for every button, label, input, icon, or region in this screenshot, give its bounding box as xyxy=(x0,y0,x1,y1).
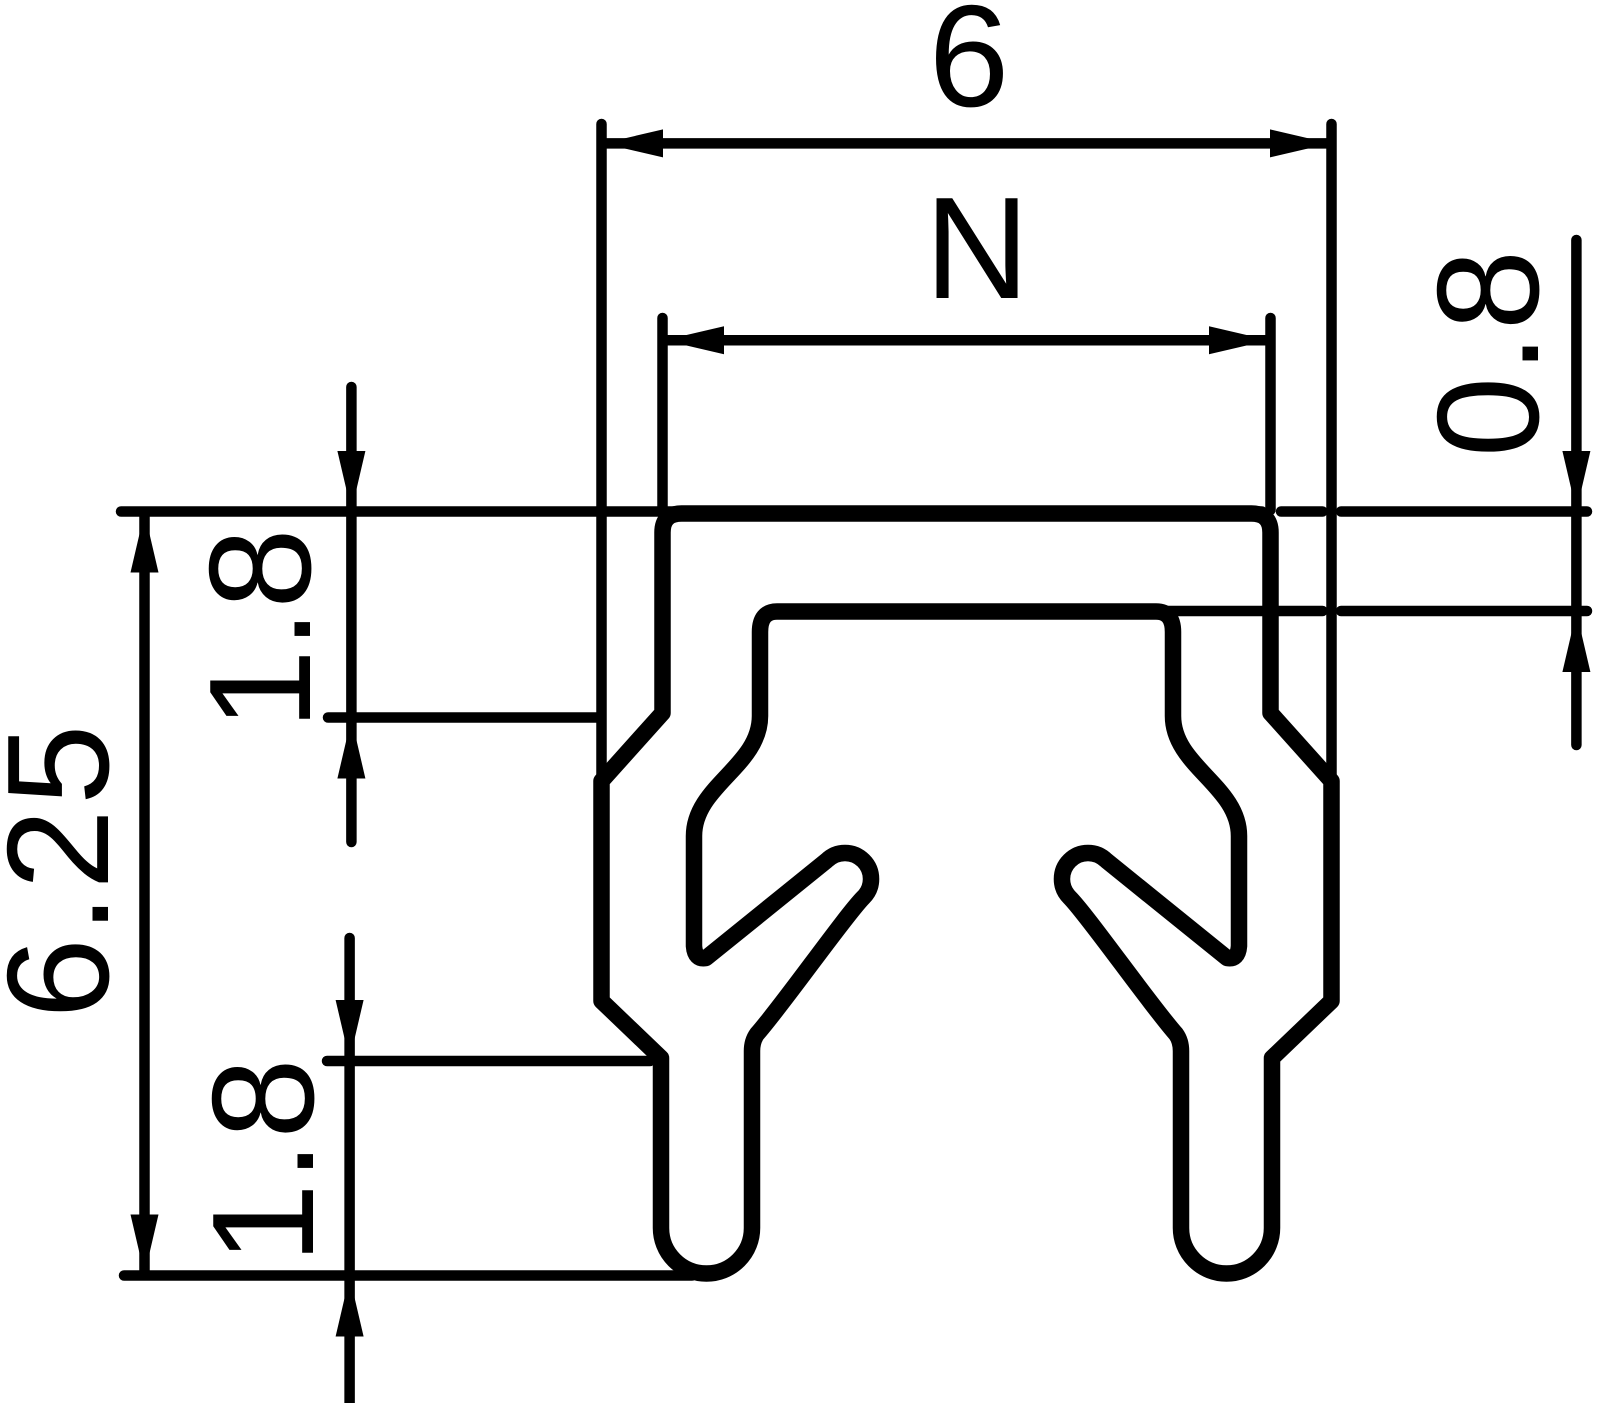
arrowhead 6.25 top xyxy=(131,513,159,573)
wire: dim line 6 xyxy=(603,138,1330,149)
profile cross-section outline xyxy=(602,514,1332,1274)
arrowhead 0.8 top xyxy=(1562,451,1590,511)
svg-text:N: N xyxy=(925,167,1030,329)
arrowhead 0.8 bottom xyxy=(1562,612,1590,672)
svg-text:1.8: 1.8 xyxy=(182,1056,344,1264)
wire: ext line 6 right xyxy=(1326,124,1337,786)
svg-text:1.8: 1.8 xyxy=(179,528,341,730)
arrowhead 1.8 upper bottom xyxy=(337,719,365,779)
arrowhead 1.8 lower top xyxy=(336,1000,364,1060)
arrowhead 1.8 lower bottom xyxy=(336,1277,364,1337)
svg-text:6.25: 6.25 xyxy=(0,720,139,1018)
arrowhead 6.25 bottom xyxy=(131,1215,159,1275)
arrowhead 6 right xyxy=(1270,129,1330,157)
arrowhead 6 left xyxy=(603,129,663,157)
wire: ext line 0.8 lower segment 2 xyxy=(1341,606,1587,617)
wire: ext line 6 left xyxy=(596,124,607,788)
arrowhead 1.8 upper top xyxy=(337,451,365,511)
wire: top reference line segment 3 xyxy=(1341,506,1587,517)
wire: bottom reference line xyxy=(124,1270,692,1281)
wire: dim line 6.25 xyxy=(139,514,150,1273)
wire: dim line 1.8 upper xyxy=(346,387,357,842)
wire: dim line 0.8 xyxy=(1571,240,1582,745)
wire: top reference line segment 2 xyxy=(1281,506,1323,517)
svg-text:6: 6 xyxy=(929,0,1010,137)
wire: top reference line xyxy=(121,506,1262,517)
wire: ext line 1.8 lower xyxy=(327,1056,650,1067)
wire: ext line N left xyxy=(657,318,668,510)
arrowhead N right xyxy=(1209,326,1269,354)
arrowhead N left xyxy=(664,326,724,354)
wire: ext line 1.8 upper xyxy=(328,712,601,723)
svg-text:0.8: 0.8 xyxy=(1407,247,1569,458)
wire: ext line 0.8 lower xyxy=(1164,606,1323,617)
wire: dim line N xyxy=(665,335,1267,346)
wire: ext line N right xyxy=(1265,318,1276,510)
wire: dim line 1.8 lower xyxy=(344,938,355,1403)
